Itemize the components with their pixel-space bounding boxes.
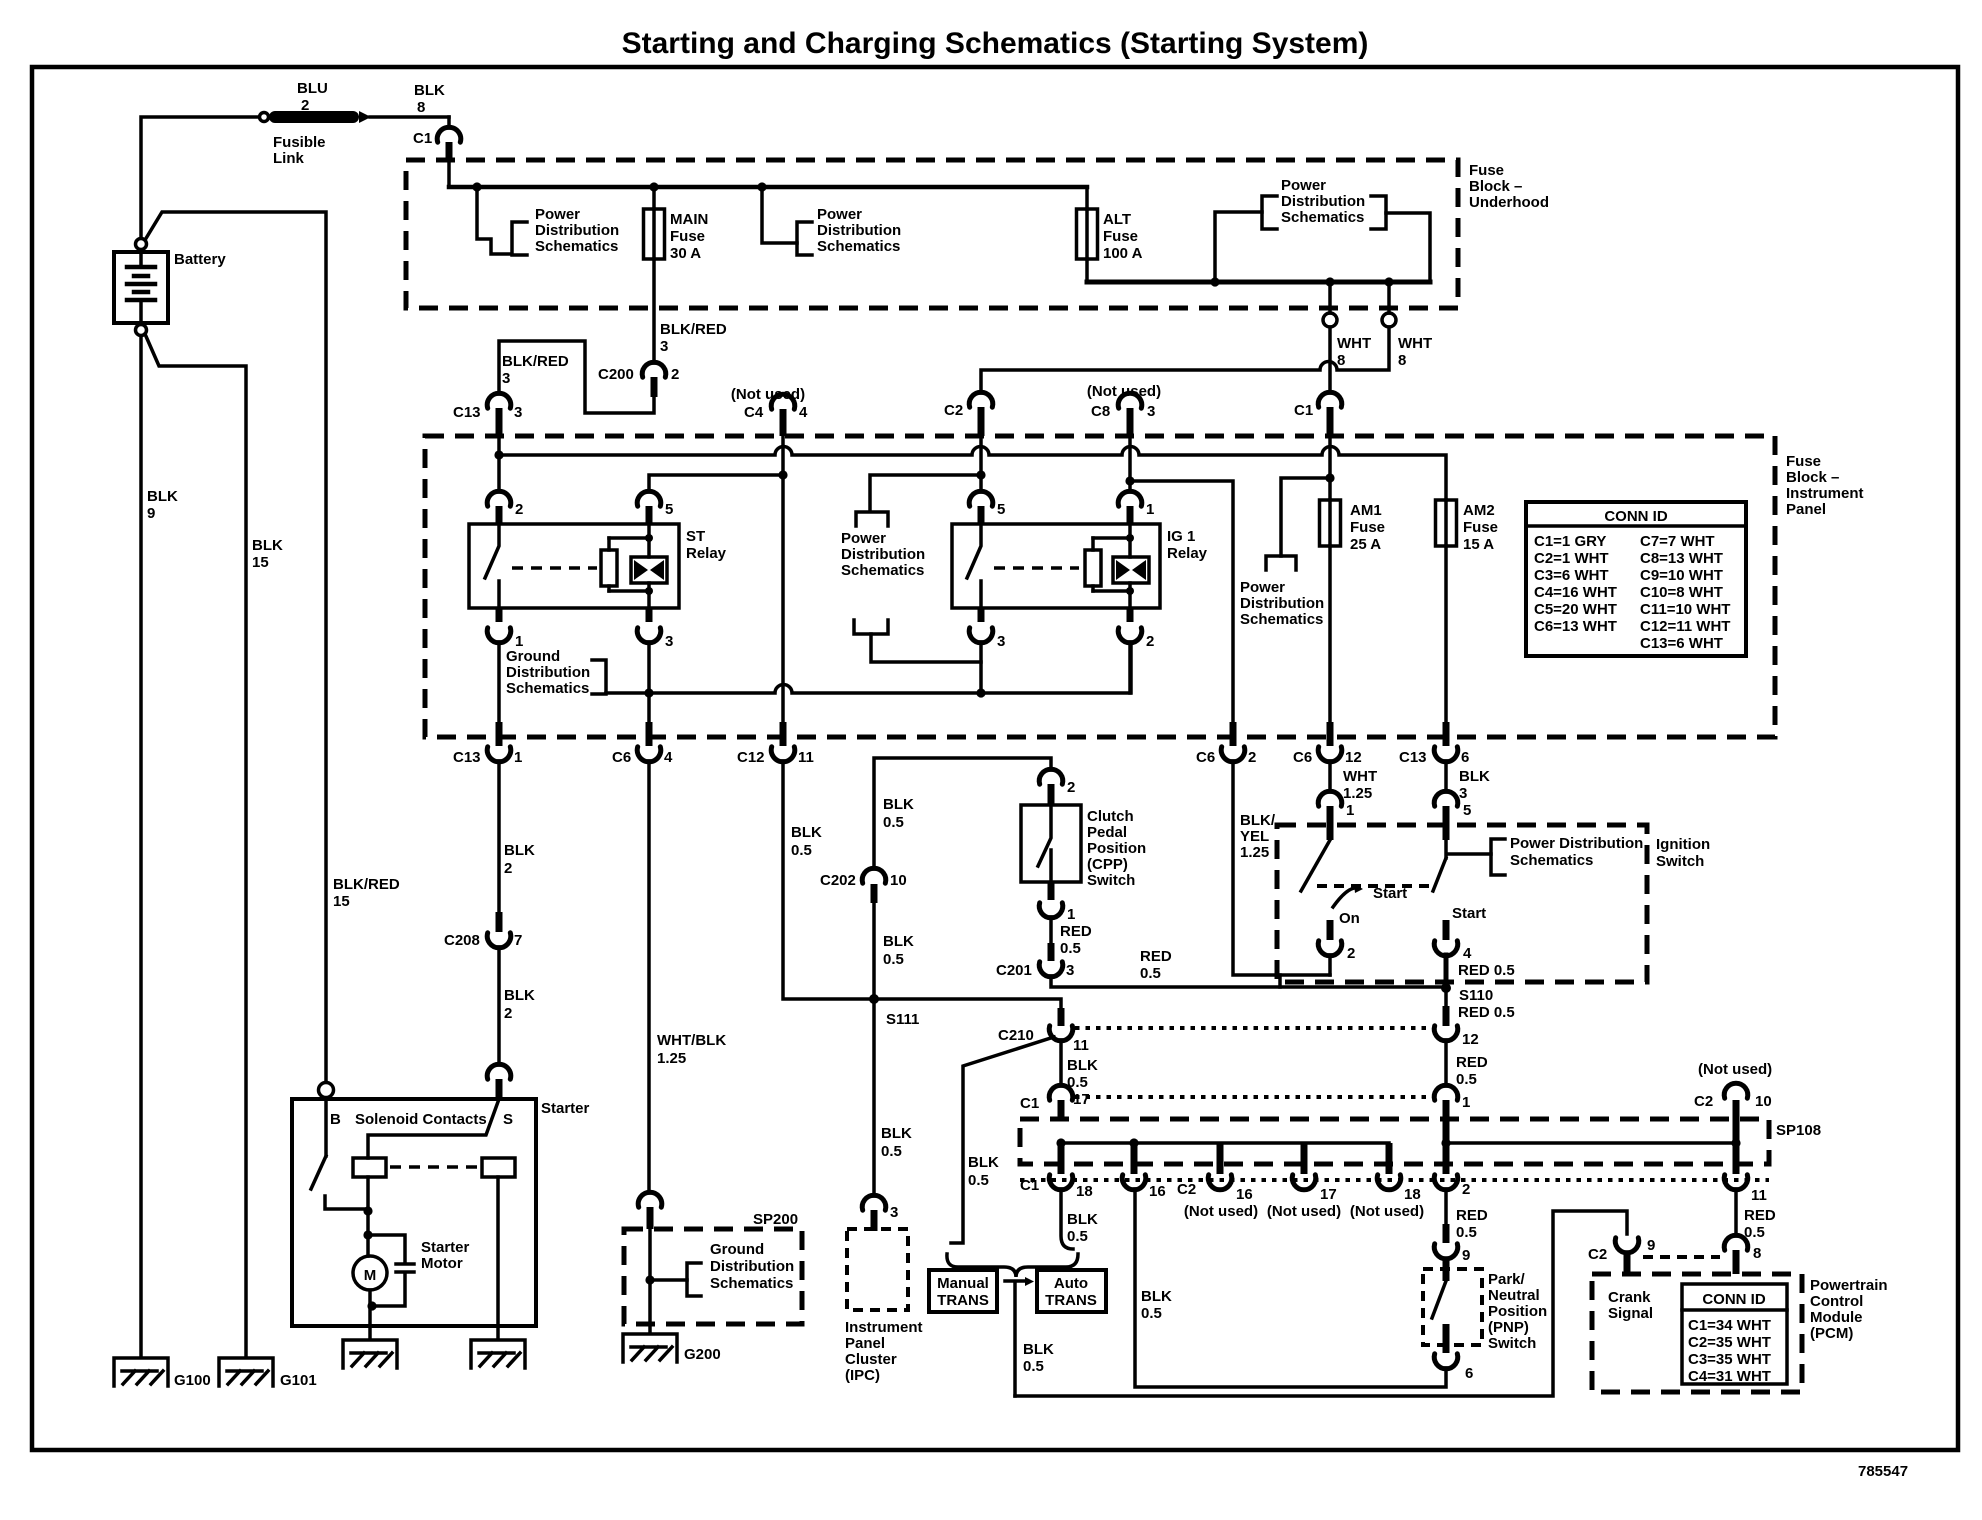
svg-text:CONN ID: CONN ID <box>1702 1291 1766 1308</box>
node ground bus junction ST pin3 <box>644 688 653 697</box>
svg-text:Control: Control <box>1810 1293 1863 1310</box>
svg-text:Battery: Battery <box>174 251 226 268</box>
ignition switch link dashes <box>1317 884 1433 888</box>
relay IG1 switch blade <box>967 524 981 608</box>
svg-text:BLK/: BLK/ <box>1240 812 1276 829</box>
svg-text:BLK: BLK <box>252 537 283 554</box>
svg-text:BLK: BLK <box>1067 1211 1098 1228</box>
svg-text:4: 4 <box>799 404 808 421</box>
svg-text:8: 8 <box>417 99 425 116</box>
svg-text:3: 3 <box>514 404 522 421</box>
wire trans select with arrow <box>1005 1277 1034 1396</box>
relay IG1 pin 1 <box>1118 491 1154 524</box>
starter motor <box>353 1235 470 1339</box>
relay IG1 coil <box>1093 524 1149 608</box>
svg-text:Switch: Switch <box>1087 872 1135 889</box>
starter solenoid switch contact <box>325 1196 368 1209</box>
svg-text:C13: C13 <box>453 404 481 421</box>
svg-text:Schematics: Schematics <box>1240 611 1323 628</box>
node SP200 splice <box>645 1275 654 1284</box>
svg-text:12: 12 <box>1345 749 1362 766</box>
svg-text:WHT/BLK: WHT/BLK <box>657 1032 726 1049</box>
connector starter S terminal <box>487 1064 511 1099</box>
svg-text:Schematics: Schematics <box>1281 209 1364 226</box>
wire S110 down to C210-12 <box>1444 988 1448 1006</box>
svg-text:C208: C208 <box>444 932 480 949</box>
clutch pedal position switch box <box>1021 805 1081 882</box>
off-page bracket power distribution 4 <box>854 620 888 634</box>
svg-text:C1=1 GRY: C1=1 GRY <box>1534 533 1606 550</box>
svg-text:C2: C2 <box>944 402 963 419</box>
svg-text:17: 17 <box>1320 1186 1337 1203</box>
connector pin 17 not used <box>1267 1175 1341 1220</box>
svg-text:Underhood: Underhood <box>1469 194 1549 211</box>
wire C210-11 BLK 0.5 to C1-17 <box>1059 1040 1063 1086</box>
connector C8 pin 3 not used <box>1087 383 1161 436</box>
svg-text:2: 2 <box>504 860 512 877</box>
SP108 bus right segment <box>1446 1141 1736 1145</box>
svg-text:Switch: Switch <box>1488 1335 1536 1352</box>
svg-text:5: 5 <box>665 501 673 518</box>
svg-text:Instrument: Instrument <box>845 1319 923 1336</box>
wire PNP pin 6 to pin 16 BLK 0.5 <box>1135 1189 1446 1387</box>
svg-text:Start: Start <box>1452 905 1486 922</box>
node IG1 pin1 branch junction <box>1125 476 1134 485</box>
svg-text:Start: Start <box>1373 885 1407 902</box>
svg-text:15: 15 <box>252 554 269 571</box>
ignition start arrow <box>1333 888 1358 907</box>
wire ignition On output jog <box>1278 975 1282 987</box>
connector ignition pin 5 <box>1434 791 1471 840</box>
connector pin 16 <box>1122 1175 1165 1200</box>
powertrain control module dashed box <box>1592 1274 1802 1392</box>
starter solenoid link dashes <box>390 1165 478 1169</box>
svg-text:Schematics: Schematics <box>841 562 924 579</box>
svg-text:Schematics: Schematics <box>506 680 589 697</box>
CPP switch blade <box>1038 805 1051 882</box>
connector C1 pin 18 <box>1020 1175 1093 1200</box>
svg-text:(Not used): (Not used) <box>1698 1061 1772 1078</box>
svg-text:6: 6 <box>1465 1365 1473 1382</box>
label box Auto TRANS <box>1037 1270 1106 1312</box>
svg-text:Distribution: Distribution <box>535 222 619 239</box>
svg-text:RED: RED <box>1456 1207 1488 1224</box>
svg-text:0.5: 0.5 <box>1456 1071 1477 1088</box>
node AM1 branch junction <box>1325 473 1334 482</box>
ground G200 <box>623 1334 677 1362</box>
svg-text:Ignition: Ignition <box>1656 836 1710 853</box>
svg-text:Ground: Ground <box>506 648 560 665</box>
svg-text:BLK: BLK <box>881 1125 912 1142</box>
svg-text:C202: C202 <box>820 872 856 889</box>
starter B terminal ring <box>319 1083 334 1098</box>
wire CPP pin1 RED 0.5 to C201 <box>1049 917 1053 943</box>
svg-text:Fuse: Fuse <box>1786 453 1821 470</box>
connector C208 pin 7 <box>444 912 522 949</box>
wire solenoid to starter motor <box>366 1177 370 1235</box>
wire C13-6 BLK 3 to ignition pin 5 <box>1444 761 1448 792</box>
wire C13-3 down to ST relay pin 2 <box>497 436 501 492</box>
wire SP108 drop C2-16 <box>1217 1143 1224 1174</box>
svg-text:16: 16 <box>1236 1186 1253 1203</box>
connector C200 pin 2 <box>598 321 727 397</box>
wire ground distribution bus <box>606 645 1131 693</box>
off-page bracket power distribution ignition <box>1491 839 1505 875</box>
fuse block instrument panel dashed box <box>425 436 1775 737</box>
connector ignition pin 4 <box>1434 920 1472 962</box>
wire C6-12 WHT 1.25 to ignition pin 1 <box>1328 761 1332 792</box>
svg-text:C2: C2 <box>1588 1246 1607 1263</box>
connector C202 pin 10 <box>820 868 907 889</box>
off-page bracket ground distribution SP200 <box>687 1263 701 1296</box>
svg-text:1.25: 1.25 <box>1343 785 1372 802</box>
park neutral position switch dashed box <box>1423 1269 1482 1345</box>
svg-text:C4=31 WHT: C4=31 WHT <box>1688 1368 1771 1385</box>
svg-text:4: 4 <box>1463 945 1472 962</box>
svg-text:Auto: Auto <box>1054 1275 1088 1292</box>
starter box <box>292 1099 536 1326</box>
svg-text:Solenoid Contacts: Solenoid Contacts <box>355 1111 487 1128</box>
svg-text:C1: C1 <box>1020 1095 1039 1112</box>
svg-text:Switch: Switch <box>1656 853 1704 870</box>
svg-text:S: S <box>503 1111 513 1128</box>
svg-text:AM2: AM2 <box>1463 502 1495 519</box>
wire C210-12 RED 0.5 to C1-1 <box>1444 1040 1448 1086</box>
svg-text:1.25: 1.25 <box>657 1050 686 1067</box>
wire SP108 drop C1-18 <box>1058 1143 1065 1174</box>
svg-text:Park/: Park/ <box>1488 1271 1526 1288</box>
wire IG1 pin 3 to ground bus <box>979 642 983 693</box>
relay ST resistor <box>601 538 617 591</box>
svg-text:C2=1 WHT: C2=1 WHT <box>1534 550 1609 567</box>
svg-text:RED: RED <box>1060 923 1092 940</box>
svg-text:BLK: BLK <box>504 842 535 859</box>
connector C210 pin 12 <box>1434 1026 1478 1048</box>
svg-text:11: 11 <box>798 749 814 766</box>
svg-text:RED: RED <box>1140 948 1172 965</box>
connector C12 pin 11 <box>737 722 814 766</box>
svg-text:11: 11 <box>1073 1037 1089 1054</box>
svg-text:11: 11 <box>1751 1187 1767 1204</box>
connector C1 instrument panel <box>1294 392 1342 436</box>
svg-text:Fuse: Fuse <box>1463 519 1498 536</box>
connector C1 pin 17 <box>1020 1085 1073 1121</box>
ignition switch blade 2 <box>1433 858 1446 891</box>
wire riser to power distribution reference 3 right <box>1386 213 1430 282</box>
svg-text:TRANS: TRANS <box>937 1292 989 1309</box>
svg-text:5: 5 <box>997 501 1005 518</box>
svg-text:12: 12 <box>1462 1031 1479 1048</box>
svg-text:0.5: 0.5 <box>1141 1305 1162 1322</box>
wire C202 up and over to CPP switch <box>874 758 1051 869</box>
connector pin 18 not used <box>1350 1175 1424 1220</box>
svg-text:C12: C12 <box>737 749 765 766</box>
wire C2 down to IG1 pin 5 <box>979 436 983 492</box>
svg-text:Power Distribution: Power Distribution <box>1510 835 1643 852</box>
svg-text:C1: C1 <box>1020 1177 1039 1194</box>
wire C1 down to AM1 fuse <box>1328 436 1332 500</box>
svg-text:Fuse: Fuse <box>670 228 705 245</box>
svg-text:C1: C1 <box>413 130 432 147</box>
svg-text:Schematics: Schematics <box>535 238 618 255</box>
connector C2 pin 10 not used <box>1694 1061 1772 1110</box>
svg-text:BLU: BLU <box>297 80 328 97</box>
svg-text:0.5: 0.5 <box>1023 1358 1044 1375</box>
svg-text:30 A: 30 A <box>670 245 701 262</box>
off-page bracket power distribution 3 left <box>1262 196 1277 229</box>
wire branch to power distribution reference 5 <box>1281 478 1330 556</box>
node motor top junction <box>363 1230 372 1239</box>
connector C2 pin 9 crank signal <box>1588 1237 1655 1275</box>
svg-text:Relay: Relay <box>686 545 727 562</box>
svg-text:1: 1 <box>1346 802 1354 819</box>
connector PNP pin 9 <box>1434 1244 1470 1264</box>
wire pin 2 RED 0.5 to PNP <box>1444 1189 1448 1224</box>
wire C210-11 diagonal manual trans branch <box>951 1037 1054 1243</box>
connector C1 pin 8 PCM <box>1724 1235 1761 1274</box>
svg-text:C210: C210 <box>998 1027 1034 1044</box>
svg-text:TRANS: TRANS <box>1045 1292 1097 1309</box>
instrument panel bus wire with hops <box>499 447 1446 501</box>
wire S111 up to C202 <box>872 903 876 999</box>
wire C6-4 WHT/BLK 1.25 <box>647 761 651 1193</box>
fusible link <box>260 80 450 167</box>
wire C1-18 BLK 0.5 <box>1061 1189 1073 1249</box>
svg-text:RED 0.5: RED 0.5 <box>1458 962 1515 979</box>
label box Manual TRANS <box>929 1270 997 1312</box>
svg-text:WHT: WHT <box>1337 335 1371 352</box>
svg-text:25 A: 25 A <box>1350 536 1381 553</box>
ignition switch blade 1 <box>1301 840 1330 891</box>
relay ST pin 5 <box>637 491 673 524</box>
svg-text:WHT: WHT <box>1343 768 1377 785</box>
svg-text:Fusible: Fusible <box>273 134 326 151</box>
wire ignition pin5 to power distribution bracket <box>1446 840 1491 858</box>
node splice S111 <box>869 994 879 1004</box>
svg-text:3: 3 <box>665 633 673 650</box>
svg-text:18: 18 <box>1404 1186 1421 1203</box>
off-page bracket power distribution 4 upper <box>856 512 888 526</box>
connector C13 pin 3 <box>453 393 522 436</box>
svg-text:Distribution: Distribution <box>841 546 925 563</box>
off-page bracket power distribution 5 <box>1266 556 1296 570</box>
fuse MAIN 30A <box>644 187 709 363</box>
node ALT bus junction WHT8 a <box>1325 277 1334 286</box>
fuse block underhood dashed box <box>406 160 1458 308</box>
svg-text:Distribution: Distribution <box>817 222 901 239</box>
svg-text:Panel: Panel <box>845 1335 885 1352</box>
svg-text:Distribution: Distribution <box>710 1258 794 1275</box>
svg-text:3: 3 <box>1147 403 1155 420</box>
svg-text:C6: C6 <box>1293 749 1312 766</box>
wire starter S internal <box>368 1099 499 1158</box>
svg-text:8: 8 <box>1753 1245 1761 1262</box>
svg-text:(IPC): (IPC) <box>845 1367 880 1384</box>
svg-text:BLK: BLK <box>883 933 914 950</box>
wire battery positive to fusible link <box>141 117 259 238</box>
fuse ALT 100A <box>1077 187 1143 282</box>
svg-text:0.5: 0.5 <box>968 1172 989 1189</box>
wire branch to C6-2 <box>1130 481 1233 722</box>
svg-text:Motor: Motor <box>421 1255 463 1272</box>
svg-text:C7=7 WHT: C7=7 WHT <box>1640 533 1715 550</box>
svg-text:C4: C4 <box>744 404 764 421</box>
relay IG1 pin 3 <box>969 608 1005 650</box>
svg-text:Distribution: Distribution <box>1281 193 1365 210</box>
svg-text:BLK: BLK <box>791 824 822 841</box>
svg-text:(Not used): (Not used) <box>1350 1203 1424 1220</box>
relay IG1 pin 2 <box>1118 608 1154 650</box>
svg-text:Position: Position <box>1087 840 1146 857</box>
svg-text:(CPP): (CPP) <box>1087 856 1128 873</box>
svg-text:16: 16 <box>1149 1183 1166 1200</box>
node ALT bus junction WHT8 b <box>1384 277 1393 286</box>
splice SP108 dashed box <box>1020 1119 1769 1164</box>
svg-text:Distribution: Distribution <box>1240 595 1324 612</box>
svg-text:0.5: 0.5 <box>883 814 904 831</box>
svg-text:0.5: 0.5 <box>1140 965 1161 982</box>
svg-text:(Not used): (Not used) <box>1184 1203 1258 1220</box>
svg-text:2: 2 <box>1347 945 1355 962</box>
svg-text:Cluster: Cluster <box>845 1351 897 1368</box>
wire SP108 through pin 2 <box>1443 1121 1450 1174</box>
ground G101 <box>219 1358 273 1386</box>
splice SP200 dashed box <box>624 1229 802 1324</box>
relay ST box <box>469 524 679 608</box>
svg-text:Power: Power <box>1240 579 1285 596</box>
relay ST pin 3 <box>637 608 673 650</box>
connector C210 row dotted line <box>1075 1026 1432 1030</box>
node underhood bus junction 1 <box>472 182 481 191</box>
svg-text:C5=20 WHT: C5=20 WHT <box>1534 601 1617 618</box>
svg-text:Power: Power <box>817 206 862 223</box>
svg-text:Signal: Signal <box>1608 1305 1653 1322</box>
wire branch to power distribution reference 4 upper <box>870 475 981 510</box>
connector C6 pin 12 <box>1293 722 1362 766</box>
svg-text:3: 3 <box>890 1204 898 1221</box>
svg-text:BLK/RED: BLK/RED <box>660 321 727 338</box>
svg-text:Powertrain: Powertrain <box>1810 1277 1888 1294</box>
svg-text:(PCM): (PCM) <box>1810 1325 1853 1342</box>
relay ST pin 2 <box>487 491 523 524</box>
node underhood bus junction MAIN <box>649 182 658 191</box>
connector C210 pin 11 <box>998 1008 1089 1054</box>
wire bracket to IG1 pin 3 <box>871 634 981 662</box>
svg-text:2: 2 <box>301 97 309 114</box>
svg-text:Clutch: Clutch <box>1087 808 1134 825</box>
svg-text:8: 8 <box>1337 352 1345 369</box>
svg-text:100 A: 100 A <box>1103 245 1143 262</box>
svg-text:10: 10 <box>890 872 907 889</box>
wire AM1 to C6-12 <box>1328 546 1332 722</box>
wire C8-3 down to IG1 pin 1 <box>1128 436 1132 492</box>
starter solenoid plunger left <box>353 1158 386 1177</box>
connector pin 11 <box>1724 1175 1767 1204</box>
node ALT bus junction 1 <box>1210 277 1219 286</box>
wire branch to power distribution reference 1 <box>477 187 511 254</box>
svg-text:BLK/RED: BLK/RED <box>333 876 400 893</box>
svg-text:C11=10 WHT: C11=10 WHT <box>1640 601 1730 618</box>
wire C12-11 BLK 0.5 to S111 <box>783 761 874 999</box>
svg-text:C3=35 WHT: C3=35 WHT <box>1688 1351 1771 1368</box>
svg-text:10: 10 <box>1755 1093 1772 1110</box>
SP108 bus left segment <box>1061 1141 1389 1145</box>
brace manual or auto trans select <box>947 1254 1078 1277</box>
node C13-3 bus junction <box>494 450 503 459</box>
svg-text:Distribution: Distribution <box>506 664 590 681</box>
svg-text:Position: Position <box>1488 1303 1547 1320</box>
svg-text:6: 6 <box>1461 749 1469 766</box>
wire battery negative BLK 9 to G100 <box>139 336 143 1357</box>
svg-text:BLK: BLK <box>1023 1341 1054 1358</box>
svg-text:Schematics: Schematics <box>817 238 900 255</box>
wire WHT 8 drop 2 with terminal ring to C2 <box>981 282 1432 393</box>
svg-text:WHT: WHT <box>1398 335 1432 352</box>
svg-text:3: 3 <box>660 338 668 355</box>
svg-text:C6: C6 <box>612 749 631 766</box>
connector C4 pin 4 not used <box>731 386 808 436</box>
connector row dotted line SP108 bottom <box>1020 1178 1769 1182</box>
wire starter S to ground <box>496 1177 500 1339</box>
svg-text:BLK: BLK <box>883 796 914 813</box>
svg-text:2: 2 <box>1067 779 1075 796</box>
connector CPP pin 1 <box>1039 882 1075 923</box>
connector C1 pin 1 <box>1434 1085 1470 1121</box>
svg-text:17: 17 <box>1073 1091 1090 1108</box>
svg-text:MAIN: MAIN <box>670 211 708 228</box>
svg-text:Pedal: Pedal <box>1087 824 1127 841</box>
svg-text:S110: S110 <box>1459 987 1493 1004</box>
svg-text:1: 1 <box>1146 501 1154 518</box>
svg-text:Power: Power <box>841 530 886 547</box>
relay IG1 actuation dashes <box>994 566 1079 570</box>
wire IG1 pin 2 to ground bus <box>1128 642 1132 693</box>
svg-text:C2: C2 <box>1694 1093 1713 1110</box>
svg-text:SP200: SP200 <box>753 1211 798 1228</box>
wire C4-4 down to C12-11 <box>781 436 785 722</box>
fuse AM2 15A <box>1436 500 1499 553</box>
node IG1 pin5 branch junction <box>976 470 985 479</box>
svg-text:G100: G100 <box>174 1372 211 1389</box>
svg-text:7: 7 <box>514 932 522 949</box>
svg-text:C13: C13 <box>453 749 481 766</box>
wire C201 RED 0.5 to splice S110 <box>1051 976 1446 987</box>
dotted link C2-9 to C1-8 <box>1643 1255 1720 1259</box>
wire ST pin 3 to C6-4 <box>647 642 651 722</box>
svg-text:C3=6 WHT: C3=6 WHT <box>1534 567 1609 584</box>
svg-text:1.25: 1.25 <box>1240 844 1269 861</box>
wire S111 branch down to C210-11 <box>874 999 1061 1008</box>
svg-text:9: 9 <box>147 505 155 522</box>
ground G100 <box>114 1358 168 1386</box>
instrument panel cluster dashed box <box>847 1229 908 1310</box>
relay ST pin 1 <box>487 608 523 650</box>
svg-text:C10=8 WHT: C10=8 WHT <box>1640 584 1723 601</box>
svg-text:(PNP): (PNP) <box>1488 1319 1529 1336</box>
svg-text:Link: Link <box>273 150 304 167</box>
svg-text:Panel: Panel <box>1786 501 1826 518</box>
svg-text:3: 3 <box>1066 962 1074 979</box>
node ground bus junction IG1 pin3 <box>976 688 985 697</box>
connector C6 pin 2 <box>1196 722 1256 766</box>
off-page bracket power distribution 1 <box>512 222 527 255</box>
off-page bracket power distribution 2 <box>797 222 812 255</box>
wire ignition pin 4 to S110 <box>1444 955 1449 987</box>
node SP108 junction pin 11 <box>1731 1138 1740 1147</box>
svg-text:B: B <box>330 1111 341 1128</box>
svg-text:2: 2 <box>1462 1181 1470 1198</box>
svg-text:2: 2 <box>671 366 679 383</box>
